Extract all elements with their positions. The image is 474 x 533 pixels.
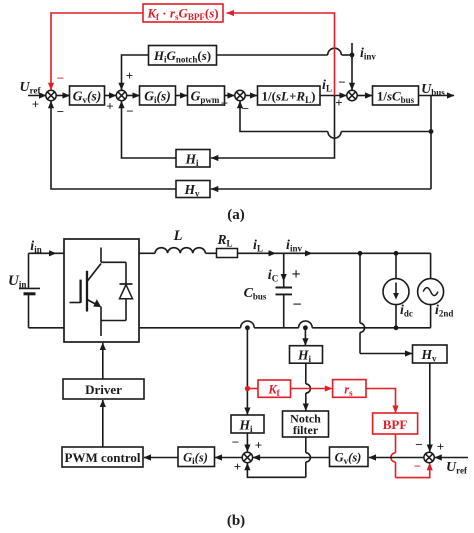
block 1/(sL+RL) inductor admittance: [258, 86, 321, 105]
svg-text:−: −: [126, 103, 133, 118]
inductor L filter: [155, 248, 205, 254]
wire Gpwm to S3: [225, 95, 235, 97]
svg-text:filter: filter: [293, 423, 319, 437]
svg-text:−: −: [414, 458, 421, 473]
summing junction S1: [46, 90, 56, 100]
transistor Q1 body bar: [86, 271, 88, 312]
wire iinv tap to notch block with hop over red line: [342, 54, 353, 56]
block Gpwm: [188, 86, 225, 105]
svg-text:+: +: [291, 266, 300, 283]
summing junction S3: [235, 90, 245, 100]
diode D1 antiparallel: [125, 262, 127, 284]
svg-text:−: −: [292, 297, 301, 314]
wire notch output down into S2: [122, 55, 149, 90]
block HiGnotch(s) feedforward: [149, 46, 217, 66]
block Gi(s) current controller: [140, 86, 176, 105]
block Kf rs GBPF virtual impedance (red): [143, 4, 223, 22]
svg-text:Gv(s): Gv(s): [335, 451, 362, 467]
wire iinv input into S4: [351, 43, 353, 90]
wire inverter output to inductor: [139, 252, 155, 254]
wire notch output to summing node bottom: [247, 463, 305, 477]
wire Uin bottom to inverter: [29, 327, 65, 329]
block Kf gain (red): [258, 380, 291, 397]
wire Cbus bottom to rail: [283, 294, 285, 327]
summing junction S4: [347, 90, 357, 100]
wire Ubus sense down with hop over rail: [359, 253, 361, 323]
block Hi1 current sensor gain: [290, 346, 323, 364]
junction dot iL sensor: [245, 325, 250, 330]
summing junction Uref node: [424, 452, 434, 462]
block Hi current feedback: [176, 150, 210, 168]
block rs virtual resistance (red): [333, 380, 366, 398]
resistor RL: [217, 249, 238, 258]
wire S1 to Gv: [56, 95, 69, 97]
svg-text:−: −: [242, 101, 249, 116]
block BPF band-pass filter (red): [373, 413, 418, 434]
junction dot idc branch top: [394, 251, 399, 256]
wire Hv feedback line: [211, 188, 431, 190]
wire Hv to S1 bottom: [51, 101, 176, 189]
wire Kf to rs: [291, 388, 332, 390]
svg-text:−: −: [415, 437, 422, 452]
wire Uin top to inverter with iin arrow: [29, 252, 65, 254]
block notch filter: [283, 411, 329, 437]
wire Uref input to summing node S1: [28, 95, 46, 97]
svg-text:Gi(s): Gi(s): [183, 451, 208, 467]
svg-text:+: +: [32, 96, 39, 111]
wire RL to Cbus node with iL arrow: [238, 252, 284, 254]
block 1/sCbus capacitor: [373, 86, 419, 105]
wire Hi to S2 bottom: [122, 101, 177, 158]
block Hv voltage feedback: [176, 181, 210, 198]
wire ic sensor to Hi1: [304, 328, 306, 345]
wire Uref node to Gv: [369, 457, 424, 459]
inverter bridge box: [64, 239, 139, 342]
wire Uref input: [435, 457, 468, 459]
block Gi(s) current controller (b): [178, 447, 215, 467]
wire bottom rail with current sensor loops: [139, 327, 241, 329]
svg-text:+: +: [437, 439, 444, 454]
svg-text:+: +: [335, 95, 342, 110]
source idc DC load current: [395, 253, 397, 278]
svg-text:+: +: [234, 459, 241, 474]
wire emitter node to diode D1: [101, 320, 126, 322]
wire Hv output down to Uref summing node: [429, 363, 431, 452]
block Gv(s) voltage controller (b): [330, 447, 369, 467]
source Uin DC input battery: [28, 253, 30, 287]
summing junction current loop: [242, 452, 252, 462]
wire Ubus sense to Hv: [360, 353, 412, 355]
svg-text:(b): (b): [227, 513, 245, 529]
wire S4 to 1/sCbus: [357, 95, 372, 97]
wire Gi to Gpwm: [176, 95, 188, 97]
wire S3 to plant block: [245, 95, 257, 97]
junction dot ic sensor: [303, 325, 308, 330]
block Driver: [63, 379, 144, 399]
wire Ubus inner feedback to S3: [240, 101, 328, 132]
svg-text:(a): (a): [227, 207, 245, 223]
junction dot Ubus sense tap: [358, 251, 363, 256]
transistor Q1 gate lead: [70, 302, 81, 304]
wire inductor to resistor: [205, 252, 216, 254]
capacitor Cbus plates: [276, 287, 293, 289]
svg-text:Driver: Driver: [85, 382, 122, 397]
block PWM control: [62, 447, 143, 467]
source i2nd second-harmonic current: [430, 253, 432, 278]
wire red iL tap up to BPF block: [227, 13, 335, 96]
wire Gv to current summing node: [253, 457, 329, 459]
wire PWM control to Driver: [102, 400, 104, 447]
wire S2 to Gi: [127, 95, 140, 97]
wire Hi1 output to notch filter with hop over red line: [305, 363, 307, 384]
wire collector node to diode D1: [101, 261, 126, 263]
svg-text:−: −: [57, 70, 64, 85]
svg-text:BPF: BPF: [383, 417, 408, 432]
wire Ubus output: [419, 95, 455, 97]
wire iL tap down to Hi: [211, 96, 335, 159]
wire Driver to inverter: [102, 343, 104, 379]
wire red tap to Kf: [247, 388, 258, 390]
transistor Q1 emitter with arrow: [87, 300, 96, 305]
svg-text:+: +: [255, 437, 262, 452]
wire Ubus output tap vertical: [430, 96, 432, 190]
wire red BPF output to Uref node bottom: [396, 463, 430, 477]
transistor Q1 IGBT collector: [100, 248, 102, 263]
svg-text:+: +: [106, 98, 113, 113]
wire Gv to S2: [105, 95, 117, 97]
wire rs to BPF: [366, 389, 396, 413]
wire current node to Gi: [215, 457, 242, 459]
wire BPF output down with hop over control line: [395, 434, 397, 453]
svg-text:+: +: [221, 95, 228, 110]
svg-text:L: L: [173, 228, 183, 244]
block Hi2 current sensor gain: [231, 415, 264, 433]
wire red BPF output to S1: [51, 13, 143, 90]
junction dot iinv tap: [350, 53, 355, 58]
junction dot idc branch bottom: [394, 325, 399, 330]
transistor Q1 gate bar: [79, 280, 81, 303]
summing junction S2: [116, 90, 126, 100]
wire notch output down with hop over control line: [305, 437, 307, 453]
block Gv(s) voltage controller: [70, 86, 105, 105]
wire plant to S4 with iL node: [320, 95, 347, 97]
block Hv sensor gain: [413, 345, 448, 363]
wire Gi to PWM control: [144, 457, 178, 459]
svg-text:−: −: [232, 434, 239, 449]
capacitor Cbus branch with iC arrow: [283, 253, 285, 287]
wire iL sensor down to Hi2: [246, 328, 248, 415]
svg-text:−: −: [57, 104, 64, 119]
junction dot on Ubus feedback: [429, 129, 434, 134]
svg-text:PWM control: PWM control: [65, 450, 141, 465]
svg-text:+: +: [126, 68, 133, 83]
wire Cbus node to sources with iinv arrow: [284, 252, 431, 254]
svg-text:Gi(s): Gi(s): [144, 88, 171, 105]
wire Hi2 output into current summing node: [246, 433, 248, 452]
junction dot red Kf tap: [245, 386, 250, 391]
svg-text:Gv(s): Gv(s): [73, 88, 102, 105]
svg-text:−: −: [338, 74, 345, 89]
